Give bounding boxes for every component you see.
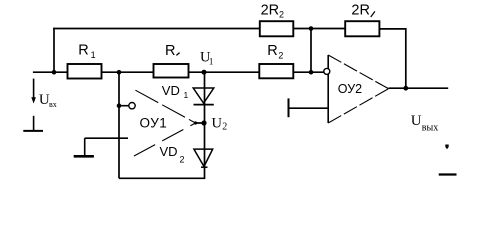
node B junction R2/2R2	[309, 70, 314, 75]
arrow Uin	[31, 79, 36, 104]
label Uout	[411, 113, 439, 134]
node U1	[202, 70, 207, 75]
resistor R1b	[154, 64, 189, 78]
svg-text:2R: 2R	[351, 3, 370, 19]
svg-text:вх: вх	[49, 100, 57, 109]
wire R2 to OU2 input	[293, 71, 324, 73]
svg-text:U: U	[212, 116, 223, 132]
label VD2	[160, 144, 185, 165]
svg-text:ОУ2: ОУ2	[338, 82, 362, 96]
node input junction	[52, 70, 57, 75]
svg-text:VD: VD	[160, 144, 178, 159]
svg-text:1: 1	[184, 90, 189, 100]
node A (inverting input net of OU1)	[117, 70, 122, 75]
diode VD1	[193, 88, 214, 105]
label Uin	[39, 92, 57, 109]
wire feedback top-left vertical	[53, 28, 55, 72]
svg-text:2: 2	[222, 121, 227, 132]
ground OU1 noninverting	[74, 138, 128, 156]
wire OU1 output to U2	[196, 122, 205, 124]
svg-text:2: 2	[180, 155, 185, 165]
label U2	[212, 116, 228, 133]
output tick mark	[445, 145, 448, 147]
circle OU1 inverting marker	[129, 103, 135, 109]
svg-text:U: U	[411, 113, 422, 129]
wire feedback OU2 output	[379, 29, 405, 88]
ground OU2 noninverting	[289, 98, 329, 117]
wire diode column	[204, 72, 206, 178]
ground output bar	[439, 173, 457, 175]
wire feedback top horizontal	[53, 28, 260, 30]
svg-text:VD: VD	[162, 83, 180, 98]
svg-text:2: 2	[278, 50, 283, 60]
op-amp U2 OU2	[324, 55, 389, 123]
ground input	[23, 116, 43, 131]
svg-text:1: 1	[91, 50, 96, 60]
resistor R1	[68, 64, 102, 79]
wire 2R2 first to second	[293, 28, 345, 30]
wire input left	[33, 71, 68, 73]
wire R1 to node A	[102, 71, 154, 73]
resistor 2R2 second	[345, 21, 379, 36]
node U2	[201, 120, 206, 125]
svg-text:2R: 2R	[261, 2, 280, 18]
resistor R2	[259, 64, 293, 78]
wire node A vertical	[118, 72, 120, 178]
resistor 2R2 first	[260, 21, 294, 36]
svg-text:вых: вых	[422, 123, 438, 134]
svg-text:1: 1	[209, 56, 214, 66]
svg-text:R: R	[78, 42, 88, 58]
node output	[403, 86, 408, 91]
label VD1	[162, 83, 189, 100]
svg-text:2: 2	[279, 10, 284, 20]
svg-text:R: R	[165, 43, 175, 59]
wire node B vertical	[310, 29, 312, 73]
op-amp U1 OU1	[134, 90, 197, 156]
node C junction 2R2/2R2	[309, 26, 314, 31]
node OU1 inverting junction	[117, 103, 122, 108]
svg-text:ОУ1: ОУ1	[140, 116, 168, 131]
wire OU2 output	[389, 87, 449, 89]
diode VD2	[194, 149, 213, 167]
wire OU1 inverting input	[119, 105, 129, 107]
wire bottom feedback	[119, 177, 205, 179]
wire R1b to R2	[189, 71, 260, 73]
svg-text:R: R	[267, 43, 277, 59]
